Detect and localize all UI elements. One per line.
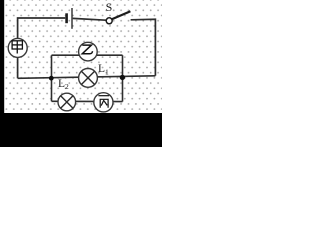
甲 glyph xyxy=(12,41,22,54)
junction dot A xyxy=(49,76,54,81)
bottom black scan band xyxy=(0,113,162,147)
svg-text:S: S xyxy=(106,0,113,14)
inner right vertical wire xyxy=(122,55,124,101)
left black scan bar xyxy=(0,0,4,147)
inner left vertical wire xyxy=(51,55,53,101)
switch arm xyxy=(112,11,130,19)
丙 glyph xyxy=(98,96,109,108)
switch pivot circle xyxy=(106,18,112,24)
wire switch to top-right corner, down right side xyxy=(131,19,156,76)
middle rail wire xyxy=(18,76,156,79)
ammeter 甲 (meter A) on left wire xyxy=(8,38,27,57)
lower branch wire xyxy=(52,100,123,102)
meter 乙 (meter B) on upper branch xyxy=(79,42,98,61)
battery negative plate (short thick) xyxy=(65,13,68,23)
wire battery to switch xyxy=(73,18,106,20)
lamp L2 on lower branch xyxy=(58,93,76,111)
wire top-left to battery xyxy=(18,18,66,78)
乙 glyph xyxy=(82,45,92,54)
meter 丙 (meter C) on lower branch xyxy=(94,93,113,112)
lamp L1 on middle rail xyxy=(79,69,98,88)
upper branch wire xyxy=(52,54,123,56)
junction dot B xyxy=(120,75,125,80)
battery positive plate (long thin) xyxy=(71,8,73,29)
